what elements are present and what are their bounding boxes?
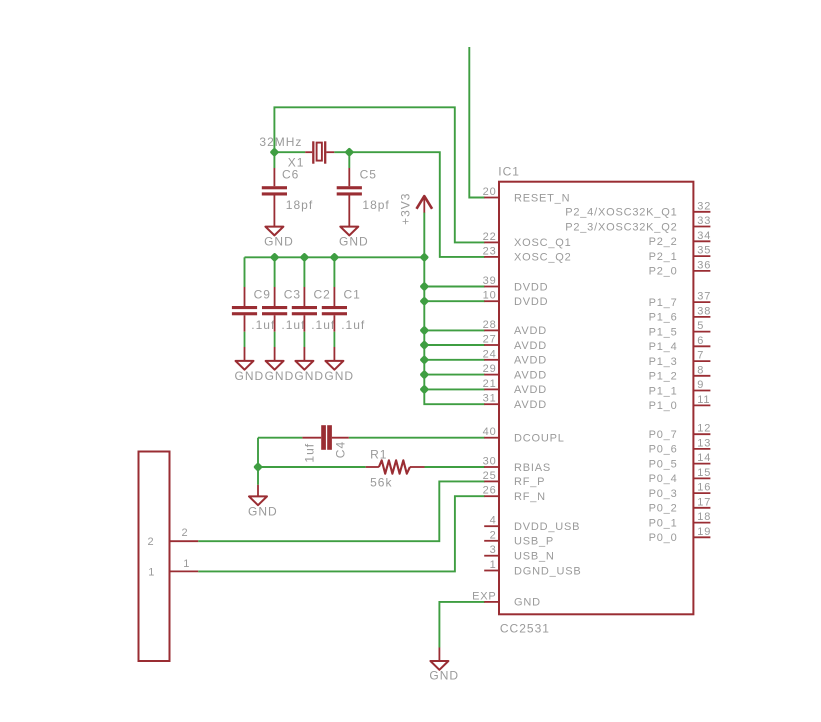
svg-text:24: 24 bbox=[483, 348, 497, 360]
pin 17 (P0_2) bbox=[649, 496, 712, 514]
svg-text:28: 28 bbox=[483, 319, 497, 331]
svg-text:35: 35 bbox=[697, 245, 711, 257]
node rail junction row pin 21 bbox=[420, 385, 428, 393]
node C3 bus junction bbox=[270, 253, 278, 261]
node rail junction row pin 10 bbox=[420, 297, 428, 305]
pin 18 (P0_1) bbox=[649, 511, 712, 529]
node RBIAS junction bbox=[254, 463, 262, 471]
pin 6 (P1_4) bbox=[649, 335, 711, 353]
pin 3 (USB_N) bbox=[484, 544, 554, 562]
svg-text:GND: GND bbox=[324, 369, 354, 383]
svg-text:38: 38 bbox=[697, 305, 711, 317]
pin 37 (P1_7) bbox=[649, 291, 712, 309]
node rail junction row pin 24 bbox=[420, 356, 428, 364]
wire C3 top connection bbox=[274, 257, 276, 287]
wire RF_N net connector pin1 to pin 26 bbox=[198, 496, 485, 571]
wire C1 top connection bbox=[333, 257, 335, 287]
svg-text:9: 9 bbox=[697, 379, 704, 391]
svg-text:C9: C9 bbox=[254, 287, 271, 301]
resistor R1 56k bbox=[366, 460, 425, 473]
svg-text:C5: C5 bbox=[360, 167, 377, 181]
pin 24 (AVDD) bbox=[483, 348, 547, 366]
capacitor C9 .1uf bbox=[232, 287, 257, 332]
node crystal right junction bbox=[345, 148, 353, 156]
svg-text:P0_5: P0_5 bbox=[649, 458, 678, 470]
pin 40 (DCOUPL) bbox=[483, 426, 565, 444]
svg-text:P2_1: P2_1 bbox=[649, 251, 678, 263]
svg-text:10: 10 bbox=[483, 290, 497, 302]
svg-text:P2_2: P2_2 bbox=[649, 236, 678, 248]
svg-text:P0_4: P0_4 bbox=[649, 473, 678, 485]
svg-text:.1uf: .1uf bbox=[311, 318, 335, 332]
wire RF_P net connector pin2 to pin 25 bbox=[198, 481, 485, 541]
svg-text:56k: 56k bbox=[370, 475, 392, 489]
svg-text:P1_5: P1_5 bbox=[649, 326, 678, 338]
svg-text:AVDD: AVDD bbox=[514, 355, 547, 367]
wire +3V3 vertical rail to pin 31 bbox=[424, 212, 485, 404]
svg-text:P2_0: P2_0 bbox=[649, 266, 678, 278]
wire C6 top connection bbox=[273, 152, 275, 168]
pin 33 (P2_3/XOSC32K_Q2) bbox=[565, 215, 711, 233]
svg-text:32: 32 bbox=[697, 200, 711, 212]
svg-text:P1_1: P1_1 bbox=[649, 385, 678, 397]
svg-text:RF_P: RF_P bbox=[514, 476, 545, 488]
node C2 bus junction bbox=[300, 253, 308, 261]
wire +3V3 branch to pin 39 bbox=[424, 286, 485, 288]
capacitor C4 1uf bbox=[302, 425, 348, 450]
svg-text:39: 39 bbox=[483, 275, 497, 287]
wire XOSC_Q1 net crystal-left over top to pin 22 bbox=[274, 107, 484, 242]
wire +3V3 branch to pin 21 bbox=[424, 388, 485, 390]
svg-text:32MHz: 32MHz bbox=[259, 135, 302, 149]
wire +3V3 branch to pin 27 bbox=[424, 344, 485, 346]
svg-text:40: 40 bbox=[483, 426, 497, 438]
pin 22 (XOSC_Q1) bbox=[483, 231, 572, 249]
pin 20 (RESET_N) bbox=[483, 186, 571, 204]
wire RESET_N net from top to pin 20 bbox=[469, 47, 485, 198]
wire +3V3 branch to pin 28 bbox=[424, 329, 485, 331]
capacitor C6 18pf bbox=[262, 168, 287, 227]
svg-text:DGND_USB: DGND_USB bbox=[514, 565, 582, 577]
wire DCOUPL corner down to RBIAS junction bbox=[257, 438, 259, 467]
svg-text:4: 4 bbox=[490, 515, 497, 527]
svg-text:RF_N: RF_N bbox=[514, 491, 546, 503]
svg-text:GND: GND bbox=[294, 369, 324, 383]
pin 12 (P0_7) bbox=[649, 423, 712, 441]
ground symbol under C6 bbox=[264, 227, 294, 249]
pin 2 (USB_P) bbox=[484, 529, 554, 547]
svg-text:2: 2 bbox=[182, 527, 189, 539]
svg-text:22: 22 bbox=[483, 231, 497, 243]
wire EXP pad to GND symbol bbox=[439, 602, 484, 648]
pin 35 (P2_1) bbox=[649, 245, 712, 263]
svg-text:DVDD: DVDD bbox=[514, 296, 548, 308]
svg-text:P0_6: P0_6 bbox=[649, 444, 678, 456]
svg-text:AVDD: AVDD bbox=[514, 369, 547, 381]
wire +3V3 branch to pin 10 bbox=[424, 300, 485, 302]
node C1 bus junction bbox=[330, 253, 338, 261]
pin 26 (RF_N) bbox=[483, 485, 546, 503]
svg-text:14: 14 bbox=[697, 452, 711, 464]
pin EXP (GND) bbox=[472, 590, 541, 608]
svg-text:1: 1 bbox=[490, 559, 497, 571]
svg-text:31: 31 bbox=[483, 393, 497, 405]
svg-text:7: 7 bbox=[697, 350, 704, 362]
node crystal left junction bbox=[270, 148, 278, 156]
pin 36 (P2_0) bbox=[649, 259, 712, 277]
svg-text:1: 1 bbox=[183, 558, 190, 570]
svg-text:C2: C2 bbox=[314, 287, 331, 301]
svg-text:P1_4: P1_4 bbox=[649, 341, 678, 353]
capacitor C5 18pf bbox=[337, 168, 362, 227]
svg-text:23: 23 bbox=[483, 245, 497, 257]
svg-text:P0_1: P0_1 bbox=[649, 517, 678, 529]
svg-text:18: 18 bbox=[697, 511, 711, 523]
ground symbol under C1 bbox=[324, 347, 354, 383]
svg-text:P2_4/XOSC32K_Q1: P2_4/XOSC32K_Q1 bbox=[565, 207, 677, 219]
svg-text:13: 13 bbox=[697, 437, 711, 449]
ground symbol under C2 bbox=[294, 347, 324, 383]
wire C9 to ground bbox=[244, 332, 246, 347]
pin 27 (AVDD) bbox=[483, 334, 547, 352]
pin 34 (P2_2) bbox=[649, 230, 712, 248]
pin 9 (P1_1) bbox=[649, 379, 711, 397]
pin 8 (P1_2) bbox=[649, 364, 711, 382]
svg-text:P0_3: P0_3 bbox=[649, 488, 678, 500]
pin 1 (DGND_USB) bbox=[484, 559, 581, 577]
svg-text:37: 37 bbox=[697, 291, 711, 303]
svg-text:15: 15 bbox=[697, 467, 711, 479]
svg-text:36: 36 bbox=[697, 259, 711, 271]
pin 14 (P0_5) bbox=[649, 452, 712, 470]
wire C5 top connection bbox=[348, 152, 350, 168]
svg-text:P0_2: P0_2 bbox=[649, 503, 678, 515]
svg-text:33: 33 bbox=[697, 215, 711, 227]
wire RBIAS net R1 to pin 30 bbox=[425, 466, 485, 468]
svg-text:29: 29 bbox=[483, 363, 497, 375]
svg-text:AVDD: AVDD bbox=[514, 340, 547, 352]
svg-text:CC2531: CC2531 bbox=[500, 621, 550, 635]
ground symbol at EXP pad bbox=[429, 648, 459, 683]
svg-text:12: 12 bbox=[697, 423, 711, 435]
svg-text:25: 25 bbox=[483, 470, 497, 482]
svg-text:DVDD_USB: DVDD_USB bbox=[514, 521, 580, 533]
svg-text:2: 2 bbox=[148, 536, 155, 548]
svg-text:16: 16 bbox=[697, 482, 711, 494]
wire +3V3 horizontal bus bbox=[245, 256, 425, 258]
svg-text:.1uf: .1uf bbox=[281, 318, 305, 332]
wire C9 top connection bbox=[244, 257, 246, 287]
svg-text:21: 21 bbox=[483, 378, 497, 390]
svg-text:3: 3 bbox=[490, 544, 497, 556]
svg-text:P1_7: P1_7 bbox=[649, 297, 678, 309]
wire XOSC_Q2 net crystal-right to pin 23 bbox=[334, 152, 485, 257]
ground symbol under C9 bbox=[235, 347, 265, 383]
wire C2 to ground bbox=[303, 332, 305, 347]
svg-text:P1_0: P1_0 bbox=[649, 400, 678, 412]
svg-text:AVDD: AVDD bbox=[514, 399, 547, 411]
svg-text:C3: C3 bbox=[284, 287, 301, 301]
wire DCOUPL net left of C4 bbox=[258, 437, 302, 439]
wire C2 top connection bbox=[303, 257, 305, 287]
svg-text:P1_6: P1_6 bbox=[649, 312, 678, 324]
capacitor C1 .1uf bbox=[322, 287, 347, 332]
pin 31 (AVDD) bbox=[483, 393, 547, 411]
ground symbol at RBIAS/DCOUPL junction bbox=[248, 485, 278, 519]
node rail junction row pin 39 bbox=[420, 282, 428, 290]
svg-text:P2_3/XOSC32K_Q2: P2_3/XOSC32K_Q2 bbox=[565, 221, 677, 233]
svg-text:RESET_N: RESET_N bbox=[514, 192, 570, 204]
svg-text:P1_2: P1_2 bbox=[649, 371, 678, 383]
op-amp-style IC box IC1 CC2531 bbox=[499, 182, 693, 615]
svg-text:C4: C4 bbox=[333, 441, 347, 458]
pin 7 (P1_3) bbox=[649, 350, 711, 368]
node rail junction row pin 29 bbox=[420, 370, 428, 378]
svg-text:19: 19 bbox=[697, 526, 711, 538]
node +3V3 bus-rail junction bbox=[420, 253, 428, 261]
ground symbol under C3 bbox=[265, 347, 295, 383]
node rail junction row pin 28 bbox=[420, 326, 428, 334]
svg-text:11: 11 bbox=[697, 394, 710, 406]
svg-text:17: 17 bbox=[697, 496, 711, 508]
svg-text:RBIAS: RBIAS bbox=[514, 462, 551, 474]
svg-text:C6: C6 bbox=[282, 167, 299, 181]
svg-text:+3V3: +3V3 bbox=[398, 193, 412, 225]
pin 5 (P1_5) bbox=[649, 320, 711, 338]
wire junction down to GND symbol bbox=[257, 467, 259, 485]
node rail junction row pin 27 bbox=[420, 341, 428, 349]
svg-text:26: 26 bbox=[483, 485, 497, 497]
svg-text:GND: GND bbox=[248, 504, 278, 518]
pin 13 (P0_6) bbox=[649, 437, 712, 455]
svg-text:XOSC_Q1: XOSC_Q1 bbox=[514, 237, 572, 249]
svg-text:C1: C1 bbox=[344, 287, 361, 301]
svg-text:1: 1 bbox=[148, 566, 155, 578]
pin 10 (DVDD) bbox=[483, 290, 549, 308]
connector J1 body bbox=[139, 452, 170, 662]
capacitor C3 .1uf bbox=[262, 287, 287, 332]
svg-text:GND: GND bbox=[235, 369, 265, 383]
wire C3 to ground bbox=[274, 332, 276, 347]
wire DCOUPL net C4 to pin 40 bbox=[349, 437, 485, 439]
svg-text:2: 2 bbox=[490, 529, 497, 541]
svg-text:AVDD: AVDD bbox=[514, 325, 547, 337]
pin 21 (AVDD) bbox=[483, 378, 547, 396]
svg-text:.1uf: .1uf bbox=[251, 318, 275, 332]
svg-text:AVDD: AVDD bbox=[514, 384, 547, 396]
pin 29 (AVDD) bbox=[483, 363, 547, 381]
svg-text:GND: GND bbox=[429, 669, 459, 683]
svg-text:1uf: 1uf bbox=[303, 443, 317, 463]
svg-text:34: 34 bbox=[697, 230, 711, 242]
pin 19 (P0_0) bbox=[649, 526, 712, 544]
pin 4 (DVDD_USB) bbox=[484, 515, 580, 533]
svg-text:5: 5 bbox=[697, 320, 704, 332]
svg-text:XOSC_Q2: XOSC_Q2 bbox=[514, 252, 572, 264]
svg-text:27: 27 bbox=[483, 334, 497, 346]
svg-text:18pf: 18pf bbox=[362, 198, 389, 212]
pin 28 (AVDD) bbox=[483, 319, 547, 337]
pin 25 (RF_P) bbox=[483, 470, 546, 488]
wire crystal left terminal bbox=[274, 151, 305, 153]
svg-text:DCOUPL: DCOUPL bbox=[514, 433, 565, 445]
wire +3V3 branch to pin 24 bbox=[424, 359, 485, 361]
wire RBIAS net junction to R1 bbox=[258, 466, 366, 468]
svg-text:P0_7: P0_7 bbox=[649, 429, 678, 441]
wire C1 to ground bbox=[333, 332, 335, 347]
svg-text:.1uf: .1uf bbox=[341, 318, 365, 332]
pin 23 (XOSC_Q2) bbox=[483, 245, 572, 263]
crystal X1 32MHz bbox=[305, 141, 334, 163]
svg-text:R1: R1 bbox=[370, 447, 387, 461]
connector pin 2 bbox=[148, 527, 199, 548]
svg-text:USB_P: USB_P bbox=[514, 536, 554, 548]
svg-text:GND: GND bbox=[265, 369, 295, 383]
svg-text:USB_N: USB_N bbox=[514, 551, 555, 563]
svg-text:6: 6 bbox=[697, 335, 704, 347]
pin 39 (DVDD) bbox=[483, 275, 549, 293]
svg-text:P1_3: P1_3 bbox=[649, 356, 678, 368]
svg-text:8: 8 bbox=[697, 364, 704, 376]
svg-text:IC1: IC1 bbox=[498, 165, 520, 179]
pin 11 (P1_0) bbox=[649, 394, 711, 412]
ground symbol under C5 bbox=[339, 227, 369, 249]
svg-text:20: 20 bbox=[483, 186, 497, 198]
pin 16 (P0_3) bbox=[649, 482, 712, 500]
connector pin 1 bbox=[148, 558, 198, 578]
svg-text:EXP: EXP bbox=[472, 590, 496, 602]
capacitor C2 .1uf bbox=[292, 287, 317, 332]
svg-text:18pf: 18pf bbox=[286, 198, 313, 212]
svg-text:DVDD: DVDD bbox=[514, 281, 548, 293]
pin 38 (P1_6) bbox=[649, 305, 712, 323]
supply +3V3 arrow bbox=[417, 196, 433, 213]
svg-text:GND: GND bbox=[339, 235, 369, 249]
svg-text:30: 30 bbox=[483, 456, 497, 468]
svg-text:P0_0: P0_0 bbox=[649, 532, 678, 544]
pin 15 (P0_4) bbox=[649, 467, 712, 485]
svg-text:GND: GND bbox=[264, 235, 294, 249]
pin 32 (P2_4/XOSC32K_Q1) bbox=[565, 200, 711, 218]
wire +3V3 branch to pin 29 bbox=[424, 374, 485, 376]
svg-text:GND: GND bbox=[514, 597, 541, 609]
pin 30 (RBIAS) bbox=[483, 456, 551, 474]
